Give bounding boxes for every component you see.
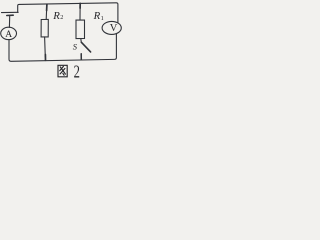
background — [0, 0, 124, 83]
battery E long plate — [2, 11, 19, 13]
wire R2 bottom — [44, 37, 47, 57]
wire R2 top — [45, 10, 47, 19]
junction top wire to R2 — [46, 4, 48, 10]
svg-text:V: V — [110, 23, 118, 34]
resistor R1 — [76, 20, 85, 39]
svg-text:R: R — [93, 10, 101, 22]
wire battery positive riser and top wire and right drop to voltmeter — [18, 3, 118, 23]
resistor R2 — [41, 19, 48, 37]
svg-text:A: A — [5, 30, 12, 40]
svg-text:2: 2 — [74, 63, 80, 83]
ammeter A1 — [1, 27, 17, 39]
switch S lower post — [80, 54, 82, 60]
svg-text:2: 2 — [60, 14, 63, 21]
svg-text:1: 1 — [101, 15, 104, 22]
battery E short plate — [7, 14, 13, 16]
caption character 图 (drawn) — [58, 65, 67, 77]
wire R1 top — [79, 8, 81, 20]
switch S blade (open) — [81, 42, 90, 52]
wire battery negative to ammeter — [8, 16, 10, 27]
voltmeter V1 — [102, 21, 121, 34]
junction top wire to R1 — [79, 3, 81, 8]
svg-text:S: S — [73, 42, 78, 52]
wire R1 bottom to switch pivot — [80, 39, 83, 43]
wire ammeter down, bottom wire, right rise to voltmeter — [9, 34, 116, 62]
junction R2 to bottom wire — [44, 55, 46, 61]
svg-text:R: R — [52, 10, 60, 22]
